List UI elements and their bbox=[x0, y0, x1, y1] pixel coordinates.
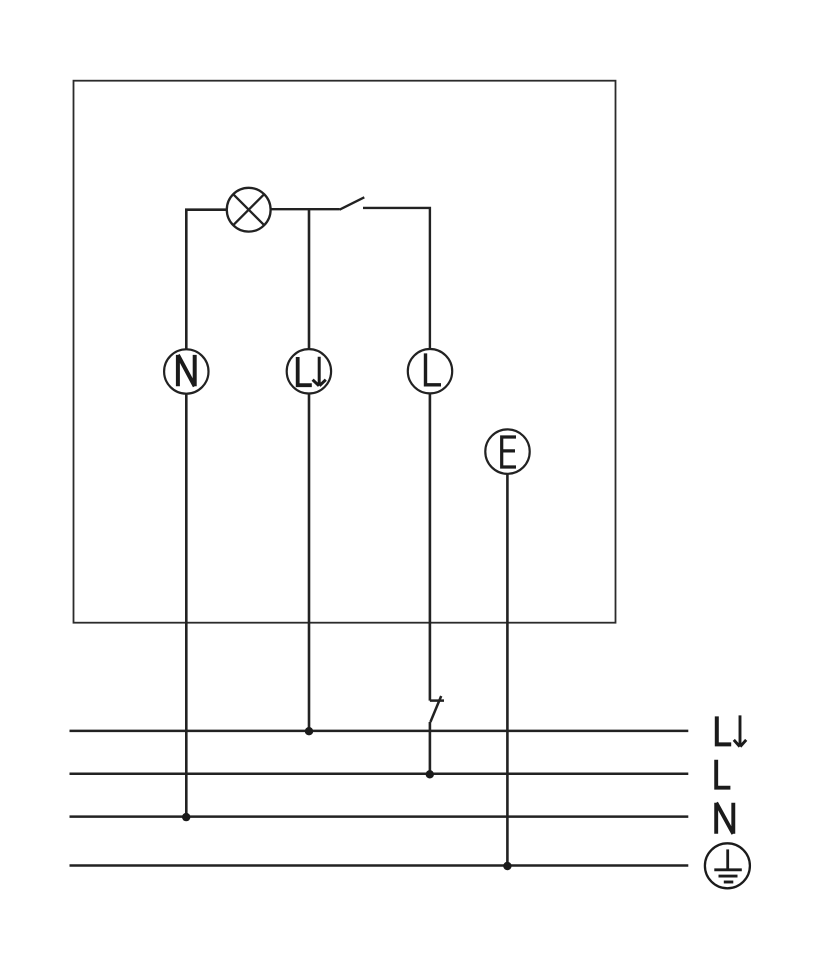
label L at bus 2 bbox=[714, 760, 730, 790]
letter L in L-down terminal bbox=[296, 357, 312, 387]
earth symbol at bus 4 (protective earth in circle) bbox=[705, 843, 750, 888]
wire switch S2 to L bus bbox=[429, 722, 432, 774]
wire E terminal to earth bus bbox=[506, 474, 509, 866]
label L-down arrow bbox=[734, 715, 746, 746]
bus line L bbox=[70, 773, 689, 776]
wire L terminal to switch S2 bbox=[429, 393, 432, 700]
label L-down at bus 1 bbox=[715, 716, 731, 746]
switch S2 fixed contact tick bbox=[430, 699, 444, 702]
terminal L circle bbox=[408, 349, 452, 393]
switch S1 blade (open contact) bbox=[340, 197, 365, 209]
terminal E circle bbox=[485, 429, 529, 473]
wire L-down terminal to L-down bus bbox=[308, 394, 311, 732]
wire switch S1 to L terminal bbox=[363, 208, 430, 349]
wire N terminal to N bus bbox=[185, 394, 188, 817]
junction dot L wire / L bus bbox=[426, 770, 434, 778]
enclosure box (sensor unit outline) bbox=[74, 81, 616, 623]
terminal L-down circle bbox=[287, 349, 331, 393]
letter N in terminal bbox=[178, 355, 195, 386]
arrow down in L-down terminal bbox=[313, 357, 326, 386]
wire L-down drop from top wire bbox=[308, 209, 311, 349]
bus line N bbox=[70, 815, 689, 818]
letter L in terminal bbox=[424, 353, 441, 386]
bus line L-down bbox=[70, 730, 689, 733]
junction dot E wire / earth bus bbox=[503, 862, 511, 870]
terminal N circle bbox=[164, 349, 208, 393]
wire lamp to switch S1 bbox=[271, 208, 340, 210]
switch S2 blade bbox=[430, 696, 441, 722]
wire lamp to N terminal bbox=[186, 210, 227, 350]
bus line earth bbox=[70, 864, 689, 867]
lamp E1 (circle with X) bbox=[227, 188, 271, 232]
letter E in terminal bbox=[500, 435, 516, 468]
junction dot L-down wire / L-down bus bbox=[305, 727, 313, 735]
label N at bus 3 bbox=[716, 803, 733, 834]
junction dot N wire / N bus bbox=[182, 813, 190, 821]
